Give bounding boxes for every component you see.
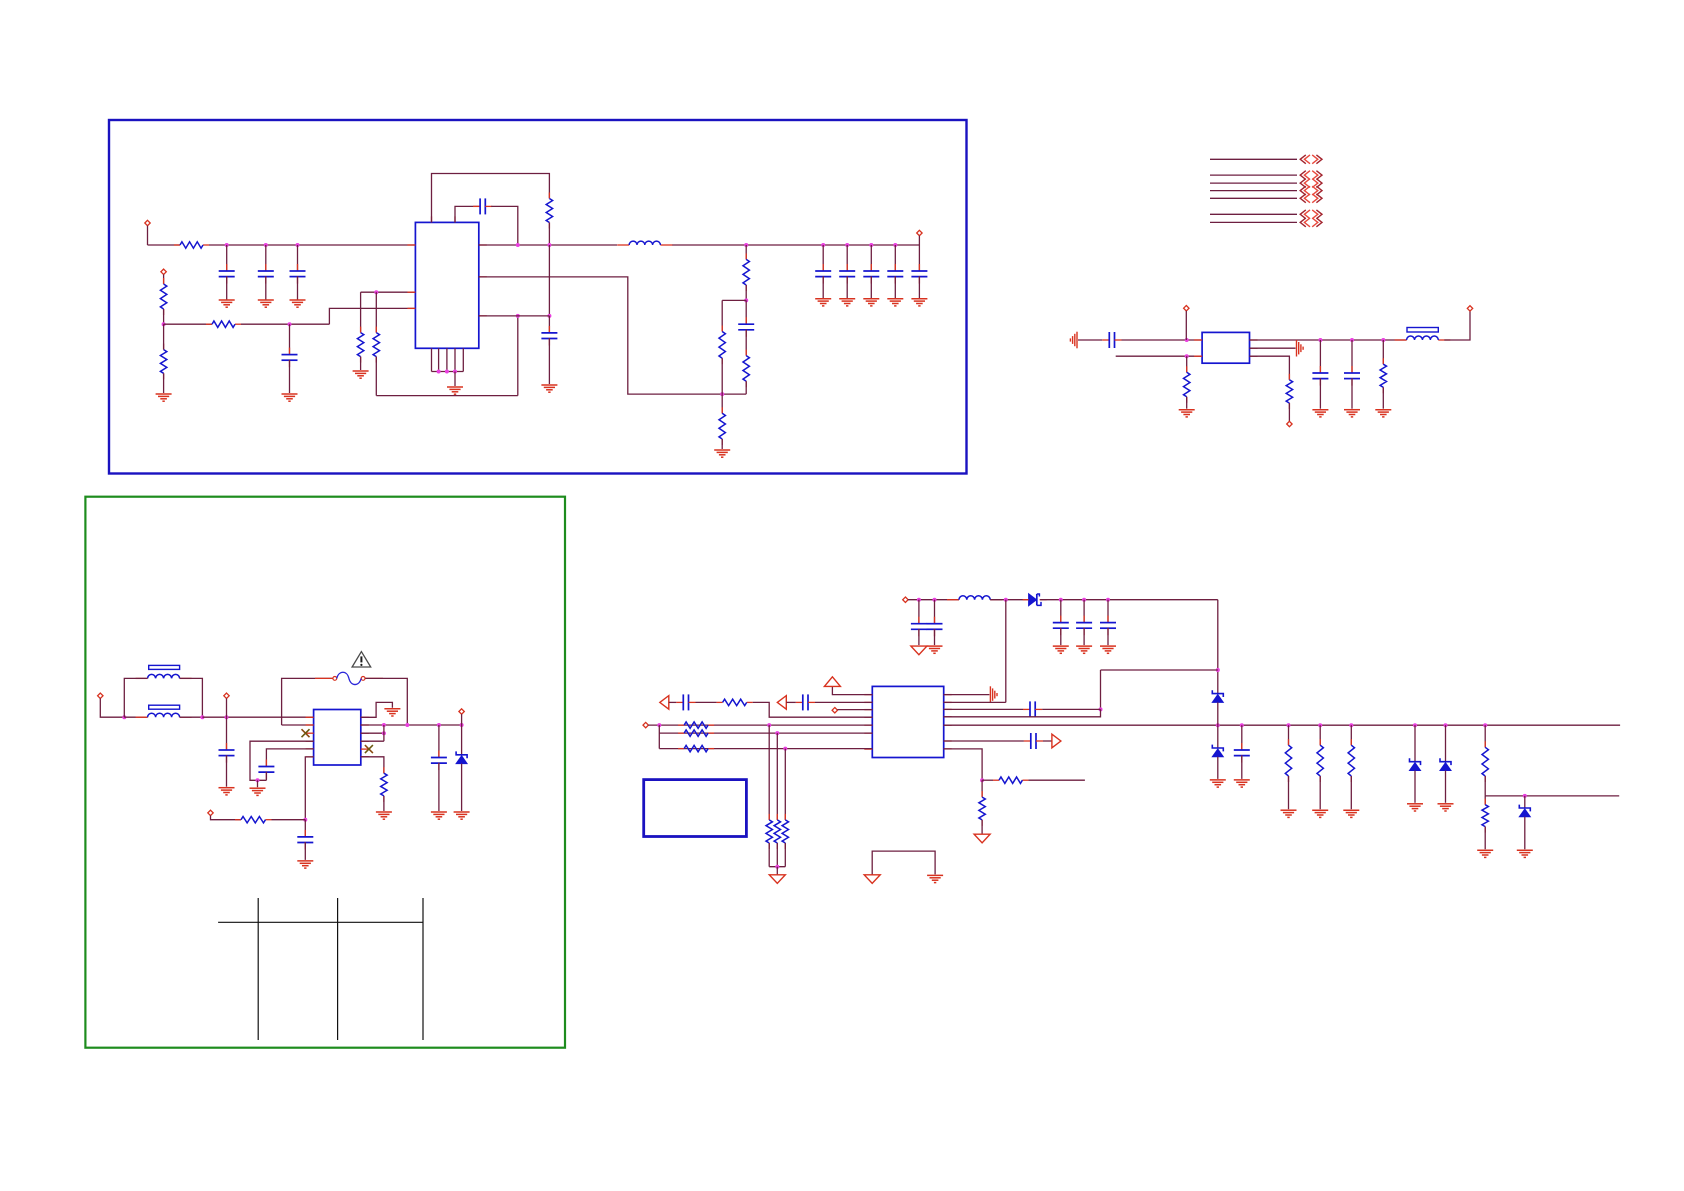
ground bbox=[258, 300, 274, 307]
wire bbox=[361, 724, 462, 726]
wire bbox=[990, 599, 1028, 601]
ground bbox=[454, 812, 470, 819]
capacitor C39 bbox=[1234, 743, 1250, 763]
wire bbox=[329, 308, 415, 324]
node junction bbox=[437, 723, 441, 727]
capacitor C23 bbox=[431, 751, 447, 771]
wire bbox=[1288, 725, 1290, 745]
wire bbox=[745, 329, 747, 355]
capacitor C32 bbox=[1053, 616, 1069, 636]
wire bbox=[1186, 397, 1188, 409]
ground bbox=[1100, 646, 1116, 653]
pulldown resistor R35 bbox=[774, 814, 780, 849]
ground bbox=[219, 788, 235, 795]
wire bbox=[361, 291, 416, 293]
wire bbox=[375, 292, 377, 332]
resistor R24 bbox=[235, 817, 272, 823]
wire bbox=[1524, 796, 1526, 808]
wire bbox=[1122, 339, 1203, 341]
ground bbox=[1477, 850, 1493, 857]
node junction bbox=[1287, 723, 1291, 727]
wire bbox=[658, 725, 660, 749]
wire bbox=[696, 701, 717, 703]
wire bbox=[1185, 311, 1187, 340]
wire bbox=[648, 724, 872, 726]
inductor L2 bbox=[1395, 336, 1451, 340]
zener diode D5 bbox=[1440, 758, 1451, 770]
choke winding T1b bbox=[136, 713, 192, 717]
node junction bbox=[405, 723, 409, 727]
resistor R37 bbox=[993, 777, 1028, 783]
wire bbox=[1241, 725, 1243, 750]
node junction bbox=[374, 290, 378, 294]
wire bbox=[479, 244, 617, 246]
pin P10 bbox=[208, 810, 213, 815]
wire bbox=[297, 245, 299, 271]
zener diode D1 bbox=[456, 751, 467, 763]
node junction bbox=[382, 731, 386, 735]
resistor R31 bbox=[678, 722, 714, 728]
node junction bbox=[162, 322, 166, 326]
wire bbox=[721, 394, 723, 413]
wire bbox=[1319, 340, 1321, 373]
wire bbox=[250, 741, 314, 780]
capacitor CX1 bbox=[219, 743, 235, 763]
output pin P3 (VOUT) bbox=[917, 230, 922, 235]
choke winding T1a bbox=[136, 674, 192, 678]
ground (left) bbox=[1070, 332, 1077, 349]
wire bbox=[289, 360, 291, 393]
wire bbox=[272, 819, 306, 821]
wire bbox=[438, 763, 440, 811]
node junction bbox=[1318, 723, 1322, 727]
wire bbox=[846, 245, 848, 271]
capacitor C9 bbox=[839, 264, 855, 284]
resistor R1 bbox=[174, 242, 209, 248]
pin P6 bbox=[1467, 306, 1472, 311]
resistor R43 bbox=[1482, 799, 1488, 833]
wire bbox=[981, 820, 983, 834]
ground bbox=[1076, 646, 1092, 653]
ground bbox=[156, 394, 172, 401]
wire bbox=[1288, 776, 1290, 809]
wire bbox=[148, 244, 181, 246]
wire bbox=[1351, 378, 1353, 409]
net wire OP1 bbox=[1210, 158, 1297, 160]
signal ground bbox=[864, 875, 880, 884]
off-page connector OP6 bbox=[1300, 210, 1322, 219]
off-page connector OP5 bbox=[1300, 194, 1322, 203]
pin P13 bbox=[643, 722, 648, 727]
wire bbox=[1217, 702, 1219, 725]
resistor R39 bbox=[1285, 739, 1291, 782]
wire bbox=[944, 709, 1101, 716]
wire bbox=[1040, 599, 1218, 601]
resistor R38 bbox=[979, 791, 985, 826]
wire bbox=[1217, 600, 1219, 694]
wire bbox=[944, 749, 982, 780]
wire bbox=[180, 678, 203, 717]
resistor R23 bbox=[381, 767, 387, 802]
pin stubs U4 bbox=[864, 695, 951, 750]
wire bbox=[304, 842, 306, 860]
wire bbox=[944, 708, 1023, 710]
capacitor C37 bbox=[1023, 701, 1042, 717]
wire bbox=[548, 338, 550, 384]
wire bbox=[265, 245, 267, 271]
capacitor C1 bbox=[219, 264, 235, 284]
capacitor C7 bbox=[738, 317, 754, 337]
pin P12 bbox=[832, 708, 837, 713]
wire bbox=[1005, 600, 1007, 703]
wire bbox=[1217, 757, 1219, 779]
wire bbox=[822, 276, 824, 298]
wire bbox=[461, 714, 463, 725]
wire bbox=[376, 395, 518, 397]
wire bbox=[722, 299, 746, 301]
wire bbox=[1186, 356, 1188, 372]
regulator IC U2 bbox=[1202, 332, 1249, 363]
wire bbox=[163, 309, 165, 324]
wire bbox=[1083, 600, 1085, 623]
wire bbox=[786, 701, 796, 703]
node junction bbox=[1413, 723, 1417, 727]
wire bbox=[1484, 776, 1486, 796]
wire bbox=[944, 724, 1620, 726]
ground bbox=[1312, 410, 1328, 417]
wire bbox=[815, 701, 872, 703]
wire bbox=[745, 300, 747, 324]
wire bbox=[776, 843, 778, 867]
wire bbox=[1060, 600, 1062, 623]
inductor L1 bbox=[617, 241, 672, 245]
wire bbox=[1083, 628, 1085, 645]
wire bbox=[1101, 669, 1218, 671]
wire bbox=[822, 245, 824, 271]
ferrite bead shield bbox=[1407, 328, 1438, 333]
ground bbox=[927, 875, 943, 882]
pin P9 (VCC) bbox=[459, 709, 464, 714]
wire bbox=[375, 357, 377, 396]
capacitor C22 bbox=[1344, 366, 1360, 386]
ground bbox=[1179, 410, 1195, 417]
wire bbox=[1414, 771, 1416, 803]
wire bbox=[982, 779, 993, 781]
wire bbox=[721, 300, 723, 331]
wire bbox=[211, 816, 242, 820]
wire bbox=[1485, 795, 1619, 797]
resistor R3 bbox=[160, 344, 166, 380]
capacitor C12 bbox=[911, 264, 927, 284]
wire bbox=[669, 701, 677, 703]
off-page connector OP1 bbox=[1300, 155, 1322, 164]
wire bbox=[918, 245, 920, 271]
net wire OP5 bbox=[1210, 197, 1297, 199]
resistor R42 bbox=[1482, 741, 1488, 782]
no-connect X bbox=[302, 729, 310, 737]
wire bbox=[1217, 725, 1219, 747]
wire bbox=[360, 292, 362, 332]
capacitor C10 bbox=[863, 264, 879, 284]
input pin P1 (VIN) bbox=[145, 220, 150, 225]
wire bbox=[745, 245, 747, 259]
wire bbox=[163, 373, 165, 393]
capacitor C21 bbox=[1312, 366, 1328, 386]
node junction bbox=[1099, 707, 1103, 711]
wire bbox=[202, 716, 313, 718]
node junction bbox=[516, 243, 520, 247]
ground bbox=[1438, 804, 1454, 811]
node junction bbox=[225, 715, 229, 719]
node junction bbox=[288, 322, 292, 326]
wire bbox=[768, 843, 770, 867]
node junction bbox=[933, 598, 937, 602]
ground bbox=[927, 646, 943, 653]
ground bbox=[1407, 804, 1423, 811]
wire bbox=[894, 276, 896, 298]
no-connect X bbox=[365, 745, 373, 753]
wire bbox=[304, 820, 306, 837]
capacitor C2 bbox=[258, 264, 274, 284]
net wire OP6 bbox=[1210, 213, 1297, 215]
ground (right) bbox=[990, 686, 997, 703]
node junction bbox=[547, 314, 551, 318]
resistor R9 bbox=[743, 350, 749, 388]
node junction bbox=[1318, 338, 1322, 342]
wire bbox=[721, 358, 723, 394]
node junction bbox=[303, 818, 307, 822]
controller IC U4 bbox=[872, 686, 943, 757]
wire bbox=[776, 867, 778, 875]
wire bbox=[1043, 740, 1052, 742]
wire bbox=[837, 709, 872, 711]
capacitor C31 bbox=[927, 617, 943, 637]
node junction bbox=[445, 370, 449, 374]
wire bbox=[257, 780, 259, 787]
wire bbox=[1319, 776, 1321, 809]
wire bbox=[894, 245, 896, 271]
node junction bbox=[225, 243, 229, 247]
zener diode D6 bbox=[1519, 805, 1530, 817]
wire bbox=[1350, 725, 1352, 745]
node junction bbox=[869, 243, 873, 247]
wire bbox=[226, 276, 228, 300]
wire bbox=[241, 323, 329, 325]
wire bbox=[438, 725, 440, 758]
ground bbox=[815, 299, 831, 306]
wire bbox=[383, 796, 385, 811]
wire bbox=[918, 600, 920, 624]
node junction bbox=[296, 243, 300, 247]
wire bbox=[944, 701, 1006, 703]
wire bbox=[1351, 340, 1353, 373]
ground bbox=[353, 371, 369, 378]
resistor R21 bbox=[1286, 374, 1292, 409]
wire bbox=[124, 678, 147, 717]
node junction bbox=[1004, 598, 1008, 602]
wire bbox=[1445, 725, 1447, 761]
ground bbox=[541, 385, 557, 392]
ground bbox=[714, 450, 730, 457]
ground bbox=[297, 861, 313, 868]
wire bbox=[659, 732, 872, 734]
ground bbox=[1312, 810, 1328, 817]
wire bbox=[934, 600, 936, 624]
wire bbox=[517, 316, 519, 396]
ground bbox=[290, 300, 306, 307]
zener diode D4 bbox=[1212, 745, 1223, 757]
wire bbox=[944, 740, 1024, 742]
ground bbox=[839, 299, 855, 306]
resistor R30 bbox=[717, 699, 753, 705]
wire bbox=[209, 244, 415, 246]
wire bbox=[672, 244, 919, 246]
pin stubs U1 left bbox=[407, 216, 486, 316]
resistor R4 bbox=[206, 321, 241, 327]
wire bbox=[1382, 387, 1384, 408]
output arrow bbox=[1052, 734, 1061, 748]
wire bbox=[872, 851, 935, 875]
node junction bbox=[720, 392, 724, 396]
wire bbox=[383, 725, 385, 741]
node junction bbox=[516, 314, 520, 318]
wire bbox=[361, 740, 384, 742]
wire bbox=[361, 702, 393, 717]
resistor R11 bbox=[719, 407, 725, 445]
U1 bottom pins bbox=[432, 348, 464, 371]
ground bbox=[447, 387, 463, 394]
node junction bbox=[980, 778, 984, 782]
net wire OP2 bbox=[1210, 174, 1297, 176]
ground bbox=[384, 709, 400, 716]
node junction bbox=[1240, 723, 1244, 727]
node junction bbox=[382, 723, 386, 727]
wire bbox=[776, 733, 778, 820]
node junction bbox=[1350, 338, 1354, 342]
wire bbox=[282, 678, 333, 725]
pin P2 (EN) bbox=[161, 269, 166, 274]
pin stubs U2 bbox=[1194, 340, 1257, 356]
power arrow bbox=[824, 677, 840, 687]
zener diode D3 bbox=[1212, 690, 1223, 702]
wire bbox=[1484, 725, 1486, 747]
capacitor C24 bbox=[258, 760, 274, 780]
schottky diode D2 bbox=[1029, 594, 1041, 606]
resistor R33 bbox=[678, 745, 714, 751]
ground bbox=[1210, 780, 1226, 787]
capacitor C25 bbox=[297, 830, 313, 850]
wire bbox=[1350, 776, 1352, 809]
resistor R7 bbox=[546, 193, 552, 229]
wire bbox=[846, 276, 848, 298]
wire bbox=[361, 757, 384, 773]
wire bbox=[266, 749, 313, 767]
warning triangle bbox=[352, 652, 371, 667]
node junction bbox=[1216, 668, 1220, 672]
wire bbox=[832, 686, 872, 694]
off-page connector OP2 bbox=[1300, 171, 1322, 180]
wire bbox=[1484, 827, 1486, 850]
choke core bar b bbox=[149, 705, 180, 709]
node junction bbox=[200, 715, 204, 719]
wire bbox=[768, 725, 770, 820]
wire bbox=[548, 223, 550, 246]
off-page connector OP3 bbox=[1300, 179, 1322, 188]
revision table bbox=[218, 898, 423, 1040]
node junction bbox=[775, 865, 779, 869]
wire bbox=[745, 381, 747, 394]
wire bbox=[1319, 378, 1321, 409]
wire bbox=[226, 755, 228, 787]
wire bbox=[548, 245, 550, 316]
pin stubs U3 bbox=[306, 717, 369, 757]
wire bbox=[1414, 725, 1416, 761]
node junction bbox=[657, 723, 661, 727]
wire bbox=[918, 629, 920, 645]
ground (right) bbox=[1297, 340, 1304, 357]
capacitor C35 bbox=[796, 694, 815, 710]
wire bbox=[461, 725, 463, 754]
wire bbox=[454, 372, 456, 387]
wire bbox=[226, 245, 228, 271]
wire bbox=[1288, 403, 1290, 421]
resistor R40 bbox=[1317, 739, 1323, 782]
capacitor C6 bbox=[541, 326, 557, 346]
capacitor C33 bbox=[1076, 616, 1092, 636]
wire bbox=[769, 866, 785, 868]
node junction bbox=[783, 747, 787, 751]
node junction bbox=[917, 598, 921, 602]
wire bbox=[163, 274, 165, 284]
wire bbox=[164, 323, 212, 325]
wire bbox=[124, 716, 147, 718]
node junction bbox=[1185, 338, 1189, 342]
input arrow bbox=[660, 696, 669, 710]
wire bbox=[479, 315, 550, 317]
wire bbox=[1382, 340, 1384, 364]
regulator IC U1 bbox=[415, 222, 478, 348]
resistor R5 bbox=[357, 327, 363, 363]
wire bbox=[1116, 355, 1202, 357]
wire bbox=[226, 698, 228, 717]
inductor L3 bbox=[947, 596, 1002, 600]
pin P4 bbox=[1184, 306, 1189, 311]
capacitor C34 bbox=[1100, 616, 1116, 636]
wire bbox=[753, 702, 873, 717]
capacitor C36 bbox=[676, 694, 695, 710]
off-page connector OP7 bbox=[1300, 218, 1322, 227]
wire bbox=[1042, 708, 1100, 710]
node junction bbox=[1082, 598, 1086, 602]
node junction bbox=[1216, 723, 1220, 727]
node junction bbox=[264, 243, 268, 247]
capacitor C8 bbox=[815, 264, 831, 284]
resistor R2 bbox=[160, 278, 166, 315]
wire bbox=[908, 599, 959, 601]
wire bbox=[491, 206, 518, 245]
node junction bbox=[460, 723, 464, 727]
node junction bbox=[1106, 598, 1110, 602]
wire bbox=[1319, 725, 1321, 745]
signal ground bbox=[769, 875, 785, 884]
label box bbox=[644, 780, 747, 837]
resistor R20 bbox=[1184, 366, 1190, 403]
wire bbox=[100, 698, 124, 717]
off-page connector OP4 bbox=[1300, 186, 1322, 195]
wire bbox=[1028, 779, 1085, 781]
AC-DC IC U3 bbox=[314, 710, 361, 766]
ground bbox=[1343, 810, 1359, 817]
